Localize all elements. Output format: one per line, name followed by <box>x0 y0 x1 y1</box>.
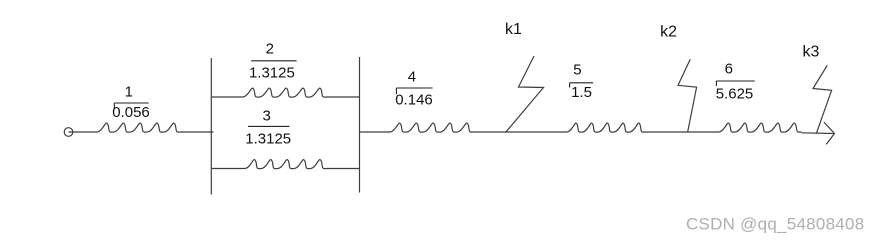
right bus bar <box>359 57 361 193</box>
label 2/1.3125 <box>249 41 297 82</box>
left bus bar <box>210 58 212 195</box>
svg-text:1.5: 1.5 <box>571 84 592 101</box>
svg-text:0.146: 0.146 <box>395 92 433 109</box>
resistor 3 (reactance 1.3125) <box>245 160 327 169</box>
resistor 4 (reactance 0.146) <box>390 123 474 132</box>
fault bolt k1 <box>506 56 544 133</box>
wire resistor 6 to output arrow (through k3 tap) <box>802 132 835 135</box>
resistor 6 (reactance 5.625) <box>719 123 802 132</box>
label 3/1.3125 <box>245 108 291 148</box>
resistor 1 (reactance 0.056) <box>97 123 181 132</box>
bottom branch wire (left) <box>211 168 245 170</box>
label 5/1.5 <box>570 62 593 102</box>
resistor 5 (reactance 1.5) <box>567 123 646 132</box>
svg-text:1.3125: 1.3125 <box>245 130 291 147</box>
svg-text:k3: k3 <box>803 43 820 60</box>
wire resistor 5 to resistor 6 (through k2 tap) <box>646 131 720 133</box>
resistor 2 (reactance 1.3125) <box>243 88 327 97</box>
top branch wire (right) <box>327 96 360 98</box>
wire resistor 1 to left bus <box>181 131 214 133</box>
label 1/0.056 <box>112 83 150 120</box>
svg-text:5.625: 5.625 <box>716 86 754 103</box>
svg-text:6: 6 <box>725 61 733 78</box>
svg-text:1.3125: 1.3125 <box>249 64 295 81</box>
label 4/0.146 <box>395 69 433 109</box>
svg-text:0.056: 0.056 <box>112 104 150 121</box>
fault bolt k2 <box>678 59 697 132</box>
svg-text:3: 3 <box>263 108 271 125</box>
svg-text:2: 2 <box>266 41 274 58</box>
top branch wire (left) <box>211 96 243 98</box>
main wire right bus to resistor 4 <box>360 131 391 133</box>
svg-text:1: 1 <box>125 83 133 100</box>
bottom branch wire (right) <box>327 168 360 170</box>
svg-text:CSDN @qq_54808408: CSDN @qq_54808408 <box>686 215 864 234</box>
svg-text:k1: k1 <box>505 21 522 38</box>
wire resistor 4 to resistor 5 (through k1 tap) <box>474 131 567 133</box>
svg-text:4: 4 <box>408 69 416 86</box>
svg-text:5: 5 <box>573 62 581 79</box>
fault bolt k3 <box>813 65 832 133</box>
wire from terminal to resistor 1 <box>69 131 98 133</box>
label 6/5.625 <box>716 61 755 103</box>
terminal circle (source node) <box>64 128 73 137</box>
output arrow head <box>824 122 835 144</box>
svg-text:k2: k2 <box>660 23 677 40</box>
